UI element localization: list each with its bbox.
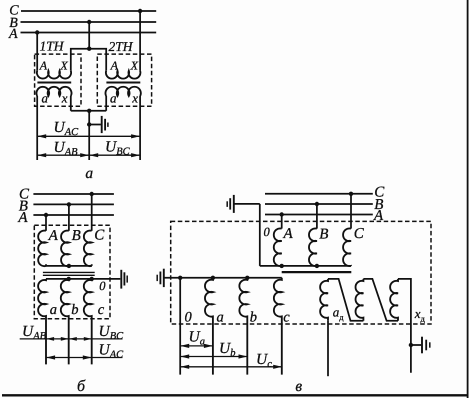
transformer 2TH core (106, 82, 140, 84)
wire: secondary star line (fig v) (164, 277, 282, 279)
ground (fig v secondary star, left) (163, 269, 165, 287)
node: B tap dot (fig b) (67, 202, 71, 206)
svg-text:x: x (61, 90, 68, 105)
wire: secondary star line (fig b) (46, 278, 120, 280)
svg-text:0: 0 (264, 225, 271, 239)
transformer 1TH core (37, 82, 71, 84)
wire: T-branch joining X of 1TH and A of 2TH to B phase (71, 49, 106, 71)
wire: A-phase lead to 1TH primary (36, 33, 38, 71)
wire: 2TH secondary x lead down (139, 96, 141, 160)
core (fig v) (282, 271, 352, 273)
node: B tap dot (fig v) (315, 202, 319, 206)
svg-text:c: c (283, 310, 290, 326)
wire: B lead down (fig v) (316, 204, 318, 229)
node: A-bus tap dot (35, 30, 39, 34)
svg-text:A: A (283, 226, 294, 242)
wire: 0 lead down (fig v) (179, 278, 181, 375)
primary winding C (fig v) (343, 228, 351, 266)
node: neutral dot A (fig v) (280, 264, 284, 268)
svg-text:UAC: UAC (99, 341, 125, 360)
svg-text:X: X (59, 58, 68, 72)
node: secondary link junction dot (87, 109, 91, 113)
arrow line U_AB / U_BC (fig b) (20, 338, 123, 340)
svg-text:UAC: UAC (54, 119, 80, 138)
node: B-bus tap dot (87, 20, 91, 24)
svg-text:B: B (319, 227, 328, 243)
node: star dot a (fig v) (211, 276, 215, 280)
arrow line U_AC (fig b) (46, 357, 122, 359)
svg-text:UAB: UAB (54, 139, 79, 158)
svg-text:xд: xд (414, 306, 426, 324)
arrow U_AC (fig a) (37, 135, 140, 137)
svg-text:C: C (94, 228, 105, 244)
bus A (fig v) (265, 214, 373, 216)
svg-text:B: B (72, 228, 81, 244)
node: secondary star dot c (fig b) (90, 277, 94, 281)
primary winding A (fig v) (274, 228, 282, 266)
primary winding B (fig v) (309, 228, 317, 266)
ground (fig a) (89, 124, 101, 126)
wire: 1TH secondary a lead down (36, 96, 38, 160)
svg-text:б: б (77, 378, 86, 395)
arrow U_AB (fig a) (37, 154, 89, 156)
wire: A lead down (fig v) (281, 215, 283, 229)
wire: C-phase lead to 2TH primary X (139, 11, 141, 71)
svg-text:a: a (217, 309, 224, 325)
node: primary neutral dot (fig b) (67, 264, 71, 268)
svg-text:UBC: UBC (105, 139, 131, 158)
node: star dot 0 (fig v) (178, 276, 182, 280)
wire: primary neutral line (fig v) (260, 265, 351, 267)
ground (fig v x_d) (411, 344, 421, 346)
secondary winding c (fig v) (274, 278, 282, 375)
dashed box 2TH (97, 54, 151, 106)
node: x_d ground dot (fig v) (409, 343, 413, 347)
node: C tap dot (fig v) (349, 192, 353, 196)
page border right (467, 0, 469, 398)
svg-text:a: a (50, 302, 57, 318)
svg-text:A: A (8, 27, 18, 42)
svg-text:a: a (42, 90, 49, 105)
core (fig b) (43, 271, 95, 273)
secondary winding b (fig v) (239, 278, 247, 375)
arrow U_BC (fig a) (89, 154, 140, 156)
page border bottom (2, 394, 468, 396)
node: ground tap dot (fig a) (87, 122, 91, 126)
wire: 1TH secondary x lead down (70, 96, 72, 111)
svg-text:а: а (85, 165, 93, 182)
svg-text:UAB: UAB (22, 323, 47, 342)
aux winding a_d (fig v open delta w1) (320, 279, 328, 321)
svg-text:0: 0 (99, 279, 106, 293)
primary winding A (fig b) (38, 231, 46, 267)
bus C (fig b) (33, 193, 114, 195)
bus C (fig a) (21, 10, 156, 12)
svg-text:в: в (295, 378, 302, 395)
secondary winding a (fig b) (38, 279, 46, 365)
wire: B lead down (fig b) (68, 204, 70, 230)
svg-text:C: C (354, 226, 365, 242)
svg-text:x: x (131, 90, 138, 105)
wire: 2TH secondary a lead down (105, 96, 107, 111)
wire: secondary link x1-a2 (71, 110, 106, 112)
svg-text:b: b (71, 302, 78, 318)
wire: neutral drop (fig v) (259, 204, 261, 266)
arrow U_b (fig v) (180, 356, 247, 358)
secondary winding a (fig v) (205, 278, 213, 375)
transformer 1TH secondary winding a-x (37, 87, 72, 96)
svg-text:Uc: Uc (256, 351, 272, 370)
wire: C lead down (fig b) (91, 194, 93, 231)
transformer 2TH primary winding A-X (106, 71, 141, 79)
wire: B-phase drop (88, 22, 90, 49)
aux winding w3 / x_d (fig v) (390, 279, 398, 321)
transformer 1TH primary winding A-X (37, 71, 71, 79)
wire: primary neutral (fig b) (46, 265, 92, 267)
secondary winding b (fig b) (61, 279, 69, 365)
dashed box 1TH (35, 54, 81, 106)
svg-text:A: A (373, 208, 384, 224)
svg-text:0: 0 (185, 309, 193, 325)
svg-text:A: A (48, 228, 59, 244)
node: A tap dot (fig v) (280, 212, 284, 216)
svg-text:Ua: Ua (189, 328, 205, 347)
primary winding B (fig b) (61, 231, 69, 267)
svg-text:1TH: 1TH (40, 39, 65, 54)
svg-text:X: X (130, 58, 139, 72)
bus A (fig a) (21, 32, 157, 34)
svg-text:UBC: UBC (99, 323, 125, 342)
bus B (fig a) (21, 21, 157, 23)
svg-text:a: a (110, 90, 117, 105)
arrow U_c (fig v) (180, 366, 282, 368)
bus A (fig b) (33, 214, 114, 216)
ground (fig v primary neutral) (234, 203, 260, 205)
arrow U_a (fig v) (180, 345, 213, 347)
svg-text:Ub: Ub (219, 340, 235, 359)
svg-text:aд: aд (333, 305, 345, 323)
bus C (fig v) (265, 193, 373, 195)
svg-text:A: A (39, 58, 48, 72)
transformer 2TH secondary winding a-x (105, 87, 140, 96)
ground (fig b) (120, 270, 122, 289)
node: C tap dot (fig b) (90, 192, 94, 196)
wire: w3 top link + x_d lead down (398, 279, 411, 373)
aux winding w2 (fig v) (356, 279, 364, 321)
svg-text:c: c (98, 302, 105, 318)
dashed box (fig b) (34, 225, 110, 319)
wire: w1 top link + diagonal to w2 bottom (328, 279, 363, 321)
node: secondary star dot b (fig b) (67, 277, 71, 281)
svg-text:A: A (110, 58, 119, 72)
secondary winding c (fig b) (84, 279, 92, 365)
wire: w2 top link + diagonal to w3 bottom (363, 279, 398, 321)
node: A tap dot (fig b) (44, 213, 48, 217)
wire: C lead down (fig v) (350, 194, 352, 229)
svg-text:b: b (250, 310, 257, 326)
wire: grounded middle lead down (88, 111, 90, 160)
wire: A lead down (fig b) (45, 215, 47, 231)
node: neutral dot B (fig v) (315, 264, 319, 268)
node: C-bus tap dot (138, 9, 142, 13)
svg-text:A: A (17, 210, 28, 226)
node: star dot b (fig v) (245, 276, 249, 280)
svg-text:2TH: 2TH (109, 39, 134, 54)
wire: a_d lead down (fig v) (327, 321, 329, 376)
dashed box (fig v) (171, 221, 431, 324)
node: T-branch junction dot (87, 47, 91, 51)
bus B (fig b) (33, 203, 114, 205)
bus B (fig v) (265, 203, 373, 205)
primary winding C (fig b) (84, 231, 92, 267)
